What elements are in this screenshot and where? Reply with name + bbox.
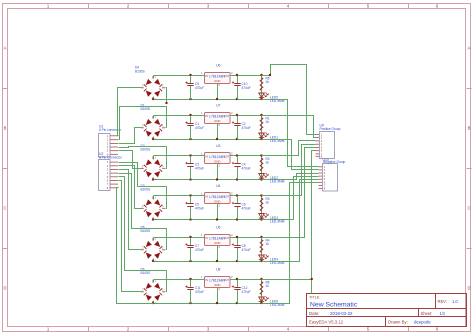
junction row1 OUT node <box>260 74 262 76</box>
svg-text:IN: IN <box>206 155 209 158</box>
junction row4 LED rail <box>260 218 262 220</box>
junction row3 C-out bottom <box>236 178 238 180</box>
junction row6 OUT riser <box>311 278 313 280</box>
voltage regulator U8 L7812ABV <box>201 268 233 291</box>
svg-text:6 Pin connector: 6 Pin connector <box>99 128 122 132</box>
capacitor C9 470uF <box>185 76 204 100</box>
wire row6 stub to title block <box>311 280 313 294</box>
svg-text:New Schematic: New Schematic <box>310 302 358 309</box>
svg-text:Positive Group: Positive Group <box>320 127 341 131</box>
svg-text:GND: GND <box>214 283 220 287</box>
svg-text:GND: GND <box>214 79 220 83</box>
wire row4 ground rail <box>154 219 262 221</box>
svg-text:B105S: B105S <box>141 229 151 233</box>
wire row6 LED branch vertical <box>261 280 263 304</box>
svg-text:1k: 1k <box>266 284 270 288</box>
svg-text:470uF: 470uF <box>195 206 204 210</box>
connector U9 pin 5 <box>316 146 320 148</box>
connector U10 pin 4 <box>319 175 323 177</box>
wire connector to bridge D2 AC left <box>119 151 142 169</box>
resistor R2 1k <box>260 157 270 171</box>
svg-text:1.0: 1.0 <box>452 299 458 304</box>
connector U10 Negative Group <box>323 164 338 192</box>
svg-text:Negative Group: Negative Group <box>323 160 346 164</box>
svg-text:470uF: 470uF <box>242 290 251 294</box>
wire row5 LED branch vertical <box>261 238 263 262</box>
junction row4 GND rail <box>216 218 218 220</box>
connector U9 pin 2 <box>316 137 320 139</box>
svg-text:B105S: B105S <box>141 148 151 152</box>
frame row tick <box>3 248 472 250</box>
wire row1 regulator GND to rail <box>217 84 219 100</box>
capacitor C11 470uF <box>185 280 204 304</box>
wire row6 bridge top pin <box>153 280 155 283</box>
svg-text:Sheet:: Sheet: <box>421 311 433 316</box>
svg-text:470uF: 470uF <box>195 290 204 294</box>
svg-text:L7812ABV: L7812ABV <box>209 237 226 241</box>
svg-text:Drawn By:: Drawn By: <box>388 320 408 325</box>
junction row6 C-in bottom <box>189 302 191 304</box>
svg-text:B105S: B105S <box>135 69 145 73</box>
svg-text:A: A <box>468 46 471 51</box>
connector U2 pin 4 <box>110 172 118 174</box>
wire row6 regulator OUT to LED branch <box>231 279 262 281</box>
wire row4 LED branch vertical <box>261 196 263 220</box>
junction row6 C-out bottom <box>236 302 238 304</box>
svg-text:IN: IN <box>206 195 209 198</box>
svg-text:D: D <box>3 286 6 291</box>
connector U1 pin 6 <box>110 153 118 155</box>
wire connector wrap to bridge D1 AC right <box>119 107 167 140</box>
junction row4 C-out top <box>236 194 238 196</box>
svg-text:470uF: 470uF <box>242 206 251 210</box>
wire row1 bridge top pin <box>153 76 155 79</box>
junction row6 GND rail <box>216 302 218 304</box>
capacitor C6 470uF <box>232 196 251 220</box>
wire row3 rail to U10 pin3 <box>262 174 319 180</box>
connector U1 pin 2 <box>110 139 118 141</box>
junction row1 bridge rail <box>152 98 154 100</box>
svg-text:B105S: B105S <box>141 271 151 275</box>
svg-text:REV:: REV: <box>438 299 447 304</box>
wire connector wrap to bridge D5 AC right <box>119 174 167 250</box>
bridge rectifier D4 B105S <box>141 76 165 101</box>
svg-text:470uF: 470uF <box>242 248 251 252</box>
wire connector to bridge D6 AC left <box>119 181 142 292</box>
bridge rectifier D2 B105S <box>141 156 165 181</box>
junction D4 right pin rail <box>165 102 167 104</box>
wire row1 bridge to regulator IN <box>154 75 205 77</box>
svg-text:LED-3MM: LED-3MM <box>270 220 285 224</box>
svg-text:C: C <box>3 206 6 211</box>
wire connector to bridge D1 AC left <box>119 128 142 144</box>
svg-text:470uF: 470uF <box>195 166 204 170</box>
frame column tick <box>408 4 410 332</box>
junction row3 OUT node <box>260 154 262 156</box>
frame row tick <box>3 88 472 90</box>
connector U2 8 Pin Connector <box>99 160 111 191</box>
wire row2 regulator OUT to LED branch <box>231 115 262 117</box>
wire row6 bridge bottom pin to rail <box>153 301 155 304</box>
wire row1 regulator OUT to LED branch <box>231 75 262 77</box>
svg-text:GND: GND <box>214 200 220 204</box>
junction row2 C-out top <box>236 114 238 116</box>
junction row2 C-in top <box>189 114 191 116</box>
wire row6 ground rail <box>154 303 262 305</box>
frame column tick <box>248 4 250 332</box>
connector U1 pin 5 <box>110 150 118 152</box>
wire row2 LED branch vertical <box>261 116 263 140</box>
connector U2 pin 5 <box>110 176 118 178</box>
connector U2 pin 6 <box>110 179 118 181</box>
title block outline <box>307 294 467 327</box>
junction row2 LED rail <box>260 138 262 140</box>
junction row6 OUT node <box>260 278 262 280</box>
svg-text:B105S: B105S <box>141 107 151 111</box>
junction row2 C-in bottom <box>189 138 191 140</box>
wire U1 pin1 to bridge D4 AC left <box>118 88 142 136</box>
svg-text:470uF: 470uF <box>195 248 204 252</box>
svg-text:1k: 1k <box>266 161 270 165</box>
LED LED1 LED-3MM <box>259 132 285 143</box>
capacitor C5 470uF <box>185 196 204 220</box>
svg-text:B: B <box>4 126 7 131</box>
wire connector wrap to bridge D2 AC right <box>119 147 167 169</box>
connector U9 pin 7 <box>316 153 320 155</box>
wire row6 OUT to U9 pin6 <box>262 151 316 280</box>
junction row3 C-in bottom <box>189 178 191 180</box>
wire row1 OUT to U9 pin1 <box>262 65 316 135</box>
svg-text:470uF: 470uF <box>195 126 204 130</box>
wire row2 bridge bottom pin to rail <box>153 137 155 140</box>
connector U2 pin 1 <box>110 161 118 163</box>
wire row1 LED branch vertical <box>261 76 263 100</box>
svg-text:C: C <box>467 206 470 211</box>
frame row tick <box>3 168 472 170</box>
resistor R5 1k <box>260 77 270 91</box>
connector U2 pin 2 <box>110 165 118 167</box>
connector U9 pin 3 <box>316 140 320 142</box>
bridge rectifier D1 B105S <box>141 116 165 141</box>
svg-text:U6: U6 <box>216 64 220 68</box>
LED LED5 LED-3MM <box>259 92 285 103</box>
junction row1 GND rail <box>216 98 218 100</box>
svg-text:IN: IN <box>206 237 209 240</box>
junction row1 C-out top <box>236 74 238 76</box>
svg-text:U3: U3 <box>216 144 220 148</box>
junction row4 C-in top <box>189 194 191 196</box>
svg-text:L7812ABV: L7812ABV <box>209 115 226 119</box>
capacitor C4 470uF <box>232 156 251 180</box>
junction row5 GND rail <box>216 260 218 262</box>
svg-text:GND: GND <box>214 241 220 245</box>
junction row1 LED rail <box>260 98 262 100</box>
wire row2 bridge top pin <box>153 116 155 119</box>
junction row5 LED rail <box>260 260 262 262</box>
junction row4 C-in bottom <box>189 218 191 220</box>
junction row5 C-in bottom <box>189 260 191 262</box>
connector U10 pin 8 <box>319 188 323 190</box>
wire row6 regulator GND to rail <box>217 288 219 304</box>
LED LED6 LED-3MM <box>259 296 285 307</box>
svg-text:U5: U5 <box>216 226 220 230</box>
wire row5 bridge to regulator IN <box>154 237 205 239</box>
wire connector wrap to bridge D6 AC right <box>119 177 167 292</box>
capacitor C8 470uF <box>232 238 251 262</box>
voltage regulator U4 L7812ABV <box>201 184 233 207</box>
wire row1 ground rail <box>154 99 262 101</box>
wire row2 rail to U10 pin2 <box>262 140 319 170</box>
wire row5 OUT to U9 pin5 <box>262 148 316 238</box>
wire row5 bridge top pin <box>153 238 155 241</box>
wire row4 bridge bottom pin to rail <box>153 218 155 220</box>
voltage regulator U6 L7812ABV <box>201 64 233 87</box>
wire row4 bridge to regulator IN <box>154 195 205 197</box>
svg-text:LED-3MM: LED-3MM <box>270 180 285 184</box>
wire row3 OUT to U9 pin3 <box>262 141 316 156</box>
junction row1 OUT riser <box>269 74 271 76</box>
svg-text:1k: 1k <box>266 120 270 124</box>
svg-text:1k: 1k <box>266 242 270 246</box>
wire row3 ground rail <box>154 179 262 181</box>
wire row4 OUT to U9 pin4 <box>262 145 316 196</box>
wire connector wrap to bridge D3 AC right <box>119 163 167 209</box>
connector U9 pin 6 <box>316 150 320 152</box>
svg-text:L7812ABV: L7812ABV <box>209 155 226 159</box>
svg-text:EasyEDA V5.3.12: EasyEDA V5.3.12 <box>309 320 344 325</box>
wire row3 regulator OUT to LED branch <box>231 155 262 157</box>
capacitor C3 470uF <box>185 156 204 180</box>
frame column tick <box>88 4 90 332</box>
connector U1 pin 4 <box>110 146 118 148</box>
connector U1 6 Pin connector <box>99 134 111 158</box>
connector U9 pin 4 <box>316 143 320 145</box>
wire row5 ground rail <box>154 261 262 263</box>
junction row2 GND rail <box>216 138 218 140</box>
bridge rectifier D3 B105S <box>141 196 165 221</box>
wire row2 OUT to U9 pin2 <box>262 116 316 138</box>
wire row4 regulator GND to rail <box>217 204 219 220</box>
junction row6 bridge rail <box>152 302 154 304</box>
title block inner lines <box>307 294 467 327</box>
junction row3 C-in top <box>189 154 191 156</box>
wire connector to bridge D5 AC left <box>119 170 142 250</box>
junction row5 C-out top <box>236 236 238 238</box>
connector U9 pin 1 <box>316 133 320 135</box>
bridge rectifier D6 B105S <box>141 280 165 305</box>
wire row6 bridge to regulator IN <box>154 279 205 281</box>
resistor R4 1k <box>260 239 270 253</box>
wire row5 regulator GND to rail <box>217 246 219 262</box>
svg-text:L7812ABV: L7812ABV <box>209 195 226 199</box>
svg-text:U4: U4 <box>216 184 220 188</box>
junction row6 C-in top <box>189 278 191 280</box>
connector U10 pin 1 <box>319 166 323 168</box>
wire row3 regulator GND to rail <box>217 164 219 180</box>
svg-text:IN: IN <box>206 115 209 118</box>
capacitor C2 470uF <box>232 116 251 140</box>
junction row1 C-in top <box>189 74 191 76</box>
junction row3 LED rail <box>260 178 262 180</box>
junction row4 bridge rail <box>152 218 154 220</box>
LED LED2 LED-3MM <box>259 173 285 184</box>
junction row6 LED rail <box>260 302 262 304</box>
svg-text:470uF: 470uF <box>242 126 251 130</box>
connector U1 pin 3 <box>110 142 118 144</box>
wire connector to bridge D3 AC left <box>119 166 142 209</box>
junction row5 bridge rail <box>152 260 154 262</box>
junction row2 OUT node <box>260 114 262 116</box>
wire row2 regulator GND to rail <box>217 124 219 140</box>
wire row3 LED branch vertical <box>261 156 263 180</box>
junction row5 C-in top <box>189 236 191 238</box>
wire bridge D4 right pin to rail <box>166 88 167 104</box>
resistor R3 1k <box>260 197 270 211</box>
svg-text:1k: 1k <box>266 201 270 205</box>
wire row3 bridge top pin <box>153 156 155 160</box>
frame column tick <box>168 4 170 332</box>
connector U10 pin 7 <box>319 184 323 186</box>
wire row5 regulator OUT to LED branch <box>231 237 262 239</box>
connector U10 pin 2 <box>319 169 323 171</box>
bridge rectifier D5 B105S <box>141 238 165 263</box>
resistor R1 1k <box>260 117 270 131</box>
junction row6 C-out top <box>236 278 238 280</box>
frame column tick <box>328 4 330 332</box>
connector U2 pin 3 <box>110 169 118 171</box>
wire row3 bridge bottom pin to rail <box>153 178 155 180</box>
wire row4 regulator OUT to LED branch <box>231 195 262 197</box>
svg-text:8 Pin Connector: 8 Pin Connector <box>99 156 123 160</box>
capacitor C12 470uF <box>232 280 251 304</box>
wire row2 bridge to regulator IN <box>154 115 205 117</box>
svg-text:470uF: 470uF <box>195 86 204 90</box>
svg-text:1/1: 1/1 <box>440 311 446 316</box>
junction row3 C-out top <box>236 154 238 156</box>
svg-text:U7: U7 <box>216 104 220 108</box>
wire U2 pin8 to row6 rail <box>117 188 154 304</box>
svg-text:B105S: B105S <box>141 188 151 192</box>
svg-text:L7812ABV: L7812ABV <box>209 75 226 79</box>
svg-text:D: D <box>467 286 470 291</box>
wire row5 rail to U10 pin5 <box>262 180 319 262</box>
voltage regulator U5 L7812ABV <box>201 226 233 249</box>
junction row3 bridge rail <box>152 178 154 180</box>
junction row1 C-out bottom <box>236 98 238 100</box>
LED LED4 LED-3MM <box>259 254 285 265</box>
connector U10 pin 6 <box>319 181 323 183</box>
svg-text:1k: 1k <box>266 80 270 84</box>
junction row5 OUT node <box>260 236 262 238</box>
svg-text:GND: GND <box>214 119 220 123</box>
svg-text:A: A <box>4 46 7 51</box>
wire row4 rail to U10 pin4 <box>262 177 319 220</box>
svg-text:GND: GND <box>214 160 220 164</box>
connector U10 pin 3 <box>319 172 323 174</box>
connector U9 pin 8 <box>316 155 320 157</box>
svg-text:2018-03-22: 2018-03-22 <box>330 311 353 316</box>
svg-text:IN: IN <box>206 75 209 78</box>
svg-text:deepode: deepode <box>414 320 431 325</box>
wire row2 ground rail <box>154 139 262 141</box>
junction row3 GND rail <box>216 178 218 180</box>
svg-text:470uF: 470uF <box>242 86 251 90</box>
voltage regulator U3 L7812ABV <box>201 144 233 167</box>
svg-text:470uF: 470uF <box>242 166 251 170</box>
capacitor C7 470uF <box>185 238 204 262</box>
connector U2 pin 8 <box>110 187 118 189</box>
LED LED3 LED-3MM <box>259 213 285 224</box>
connector U10 pin 5 <box>319 178 323 180</box>
svg-text:TITLE:: TITLE: <box>309 295 320 299</box>
junction row1 C-in bottom <box>189 98 191 100</box>
wire row4 bridge top pin <box>153 196 155 200</box>
junction row4 C-out bottom <box>236 218 238 220</box>
svg-text:U8: U8 <box>216 268 220 272</box>
svg-text:Date:: Date: <box>309 311 320 316</box>
svg-text:B: B <box>468 126 471 131</box>
connector U9 Positive Group <box>320 132 335 159</box>
resistor R6 1k <box>260 281 270 295</box>
connector U1 pin 1 <box>110 135 118 137</box>
junction row4 OUT node <box>260 194 262 196</box>
capacitor C1 470uF <box>185 116 204 140</box>
junction row2 bridge rail <box>152 138 154 140</box>
connector U2 pin 7 <box>110 183 118 185</box>
wire row1 rail to U10 pin1 <box>262 100 319 167</box>
wire row3 bridge to regulator IN <box>154 155 205 157</box>
wire row1 bridge bottom pin to rail <box>153 97 155 100</box>
voltage regulator U7 L7812ABV <box>201 104 233 127</box>
wire row5 bridge bottom pin to rail <box>153 259 155 262</box>
wire row6 rail to U10 pin6 <box>262 183 319 304</box>
svg-text:L7812ABV: L7812ABV <box>209 279 226 283</box>
junction row5 C-out bottom <box>236 260 238 262</box>
capacitor C10 470uF <box>232 76 251 100</box>
junction row2 C-out bottom <box>236 138 238 140</box>
svg-text:IN: IN <box>206 279 209 282</box>
